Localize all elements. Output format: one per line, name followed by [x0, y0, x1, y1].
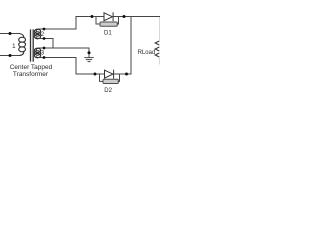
node D2 anode junction: [94, 73, 97, 76]
svg-text:D2: D2: [104, 88, 112, 94]
wire primary bottom lead: [0, 55, 20, 57]
transformer secondary winding 3: [34, 48, 40, 58]
svg-text:RLoad: RLoad: [138, 50, 156, 56]
node sec2 bottom terminal: [43, 37, 46, 40]
wire sec2 top to D1: [40, 17, 94, 30]
node D1 cathode junction: [123, 15, 126, 18]
diode D1: [94, 13, 119, 26]
node sec3 top terminal: [43, 47, 46, 50]
node D1 anode junction: [91, 15, 94, 18]
svg-text:1: 1: [12, 43, 16, 50]
node sec3 bottom terminal: [43, 56, 46, 59]
svg-text:Center Tapped: Center Tapped: [10, 64, 53, 71]
wire D1 cathode to top rail: [118, 16, 160, 18]
node primary bottom terminal: [9, 54, 12, 57]
transformer core: [30, 30, 32, 61]
svg-text:3: 3: [41, 50, 45, 57]
node ground stub: [88, 51, 91, 54]
wire sec3 bottom to D2: [40, 58, 97, 75]
transformer T1 primary winding: [19, 34, 26, 56]
wire primary top lead: [0, 33, 20, 35]
resistor RLoad: [155, 17, 160, 65]
wire sec3 top / center tap to ground: [40, 48, 90, 57]
wire sec2 bottom to center tap: [40, 39, 54, 49]
transformer secondary winding 2: [34, 29, 40, 39]
svg-text:2: 2: [41, 31, 45, 38]
wire right rail down: [120, 17, 131, 75]
node sec2 top terminal: [43, 28, 46, 31]
ground: [85, 58, 93, 62]
node primary top terminal: [9, 32, 12, 35]
svg-text:Transformer: Transformer: [13, 71, 49, 78]
svg-text:D1: D1: [104, 31, 112, 37]
node D2 cathode junction: [125, 73, 128, 76]
diode D2: [97, 70, 120, 83]
